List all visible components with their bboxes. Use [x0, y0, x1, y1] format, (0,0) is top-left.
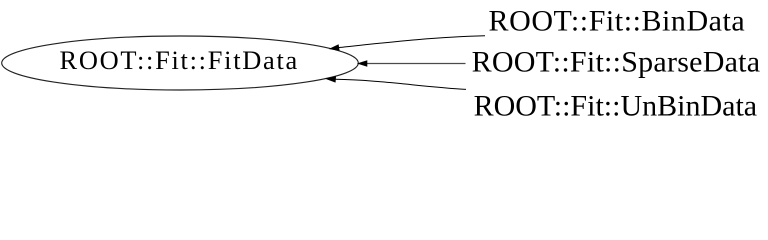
svg-text:ROOT::Fit::SparseData: ROOT::Fit::SparseData [472, 45, 761, 78]
svg-text:ROOT::Fit::UnBinData: ROOT::Fit::UnBinData [474, 90, 758, 123]
svg-text:ROOT::Fit::BinData: ROOT::Fit::BinData [489, 5, 746, 38]
svg-text:ROOT::Fit::FitData: ROOT::Fit::FitData [60, 45, 300, 75]
